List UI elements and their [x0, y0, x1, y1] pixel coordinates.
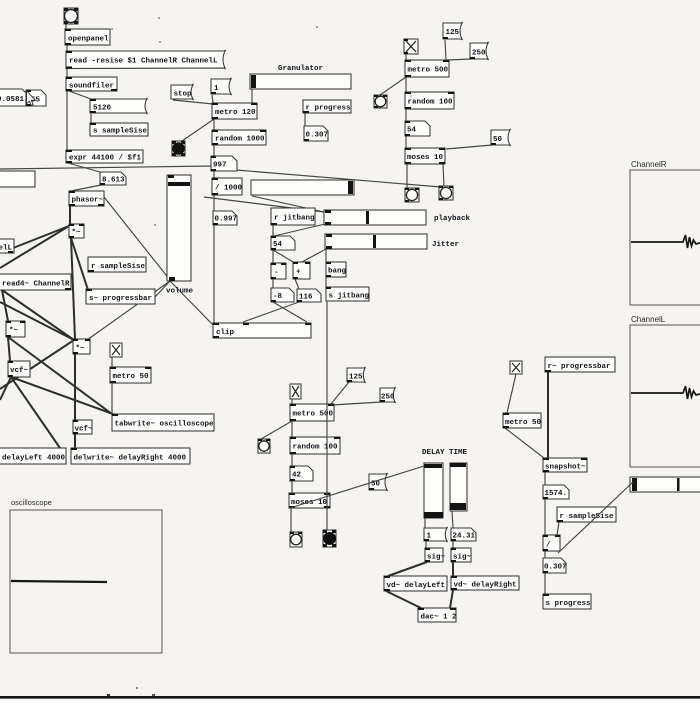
svg-text:s sampleSise: s sampleSise — [93, 128, 148, 136]
object s jitbang — [326, 287, 370, 301]
svg-text:-8: -8 — [273, 293, 283, 301]
wire — [273, 250, 295, 263]
object delwrite~ delayRight 4000 — [71, 448, 190, 464]
wire — [69, 206, 71, 224]
object soundfiler — [66, 77, 117, 91]
wire — [331, 382, 349, 404]
wire — [332, 402, 381, 405]
wire — [452, 511, 453, 528]
message read -resize $1 ChannelR ChannelL — [66, 50, 226, 69]
svg-text:moses 10: moses 10 — [407, 154, 444, 162]
wire — [236, 170, 441, 187]
wire — [8, 337, 112, 414]
wire — [291, 421, 293, 437]
wire — [2, 290, 8, 321]
wire — [11, 377, 113, 414]
svg-text:oscilloscope: oscilloscope — [11, 498, 52, 507]
object random 1000 — [212, 130, 266, 145]
wire — [87, 281, 170, 340]
svg-text:s jitbang: s jitbang — [329, 293, 370, 301]
object / 1000 — [212, 178, 243, 195]
wire — [388, 562, 427, 576]
wire — [291, 399, 293, 404]
svg-text:-: - — [274, 269, 279, 277]
svg-text:snapshot~: snapshot~ — [545, 464, 586, 472]
vslider volume — [167, 175, 191, 281]
wire — [11, 377, 60, 448]
svg-text:openpanel: openpanel — [68, 36, 109, 44]
svg-text:read4~ ChannelR: read4~ ChannelR — [2, 281, 70, 289]
wire — [261, 421, 292, 439]
wire — [155, 281, 170, 297]
svg-text:s~ progressbar: s~ progressbar — [89, 295, 152, 303]
wire — [452, 562, 454, 576]
object + — [293, 262, 310, 279]
svg-text:*~: *~ — [76, 345, 86, 353]
object snapshot~ — [543, 458, 587, 472]
object *~ B — [6, 321, 25, 337]
number 0.997 — [213, 211, 237, 225]
number 0.307 second — [543, 558, 567, 573]
object read4~ ChannelL (partial) — [0, 239, 14, 253]
svg-text:0.307: 0.307 — [544, 564, 567, 572]
wire — [272, 279, 274, 288]
wire — [405, 136, 407, 148]
number 1574. — [543, 485, 569, 499]
object moses 10 second — [289, 493, 330, 508]
wire — [71, 238, 75, 339]
wire — [557, 522, 559, 535]
message 125 second — [347, 367, 366, 383]
hslider grain 2 — [251, 180, 354, 195]
object metro 50 left — [110, 367, 151, 383]
svg-text:Jitter: Jitter — [432, 241, 459, 249]
wire — [505, 428, 544, 458]
bang B2 filled — [172, 141, 185, 156]
object random 100 second — [290, 437, 340, 454]
svg-text:0.0581: 0.0581 — [0, 96, 25, 104]
toggle T2 — [290, 384, 301, 399]
wire — [66, 69, 68, 77]
wire — [405, 109, 407, 121]
number 116 — [297, 289, 321, 302]
object - — [271, 263, 286, 279]
message 250 second — [380, 387, 396, 403]
svg-text:vd~ delayRight: vd~ delayRight — [454, 582, 517, 590]
wire — [204, 197, 324, 212]
wire — [405, 54, 407, 60]
wire — [213, 195, 215, 211]
object random 100 — [405, 92, 454, 109]
svg-text:delayLeft 4000: delayLeft 4000 — [2, 455, 66, 463]
svg-text:stop: stop — [174, 91, 193, 99]
object openpanel — [65, 29, 110, 45]
wire — [295, 279, 299, 289]
wire bang column long — [326, 301, 328, 530]
object r~ progressbar — [545, 357, 615, 372]
wire — [213, 171, 215, 178]
svg-text:vd~ delayLeft: vd~ delayLeft — [387, 582, 446, 590]
wire — [448, 59, 471, 60]
object r sampleSise — [88, 257, 146, 272]
wire — [0, 166, 212, 169]
svg-text:250: 250 — [472, 50, 486, 58]
toggle T4 — [110, 343, 122, 357]
svg-text:54: 54 — [273, 241, 283, 249]
bang B1 — [64, 8, 78, 24]
wire — [0, 226, 69, 268]
wire — [443, 164, 444, 186]
message 1 delay — [424, 527, 448, 542]
wire — [274, 224, 325, 236]
hslider playback — [324, 210, 426, 225]
wire — [302, 249, 326, 262]
wire — [445, 40, 446, 60]
svg-text:*~: *~ — [9, 327, 19, 335]
wire — [0, 377, 11, 400]
svg-text:r progress: r progress — [306, 105, 352, 113]
svg-text:tabwrite~ oscilloscope: tabwrite~ oscilloscope — [115, 421, 215, 429]
object sig~ 1 — [425, 548, 446, 562]
number 42 — [290, 466, 313, 481]
tick — [107, 694, 110, 696]
svg-text:*~: *~ — [72, 229, 82, 237]
wire — [111, 383, 113, 414]
toggle T3 — [510, 361, 522, 374]
wire — [380, 77, 406, 95]
object r progress — [303, 100, 351, 113]
svg-text:random 1000: random 1000 — [215, 136, 265, 144]
svg-text:+: + — [296, 269, 301, 277]
object metro 500 — [405, 60, 449, 77]
svg-text:r jitbang: r jitbang — [274, 215, 315, 223]
number 24.31 — [451, 528, 476, 541]
object metro 120 — [212, 103, 257, 119]
object vcf~ 2 — [73, 420, 93, 434]
svg-text:metro 50: metro 50 — [113, 373, 150, 381]
svg-text:997: 997 — [213, 162, 227, 170]
wire — [272, 225, 274, 236]
bang B6 — [258, 439, 270, 453]
wire — [8, 337, 10, 361]
svg-text:DELAY TIME: DELAY TIME — [422, 449, 468, 457]
wire — [90, 114, 92, 123]
wire — [68, 163, 100, 172]
wire — [304, 113, 306, 126]
number 0.307 — [304, 126, 328, 141]
wire — [425, 541, 427, 548]
svg-text:soundfiler: soundfiler — [69, 83, 114, 91]
svg-text:42: 42 — [292, 472, 302, 480]
number 997 — [211, 156, 237, 171]
wire — [213, 225, 215, 323]
wire — [325, 249, 327, 262]
message stop — [171, 84, 194, 100]
graph oscilloscope — [10, 510, 162, 653]
message 125 — [443, 22, 463, 40]
array ChannelR — [630, 170, 700, 305]
wire — [406, 164, 408, 188]
wire — [212, 95, 213, 103]
wire — [2, 290, 74, 340]
svg-text:/ 1000: / 1000 — [215, 185, 243, 193]
wire — [3, 226, 69, 252]
object clip — [213, 323, 311, 338]
wire — [544, 499, 546, 535]
object vcf~ 1 — [8, 361, 30, 377]
wire divide to bottom slider — [558, 482, 633, 553]
svg-text:delwrite~ delayRight 4000: delwrite~ delayRight 4000 — [74, 455, 187, 463]
object / — [543, 535, 560, 551]
wire — [544, 551, 546, 558]
bang B8 filled — [323, 530, 336, 547]
svg-text:8.613: 8.613 — [102, 177, 125, 185]
svg-text:bang: bang — [328, 268, 347, 276]
svg-text:/: / — [546, 542, 551, 550]
wire — [405, 77, 407, 92]
svg-text:vcf~: vcf~ — [10, 367, 29, 375]
dust dots — [111, 17, 412, 689]
bang B5 — [439, 186, 453, 200]
object dac~ 1 2 — [418, 608, 457, 622]
wire — [0, 340, 74, 389]
wire — [213, 119, 215, 130]
object r sampleSise second — [557, 507, 616, 522]
object bang — [326, 262, 347, 277]
svg-text:0.307: 0.307 — [306, 132, 329, 140]
wire — [71, 238, 88, 290]
hslider partial top-left — [0, 171, 35, 187]
svg-text:r sampleSise: r sampleSise — [91, 263, 146, 271]
wire — [111, 357, 113, 367]
svg-text:s progress: s progress — [546, 600, 592, 608]
wire — [251, 89, 253, 103]
svg-text:54: 54 — [407, 127, 417, 135]
message 250 — [470, 42, 489, 60]
object expr 44100 / $f1 — [66, 150, 143, 163]
mouse cursor — [27, 91, 36, 106]
object *~ A — [69, 224, 84, 238]
number -8 — [271, 288, 294, 302]
object s~ progressbar — [86, 289, 155, 304]
object s sampleSise — [90, 123, 148, 136]
wire — [173, 100, 213, 104]
wire — [65, 22, 67, 29]
number 0.0581 — [0, 89, 27, 106]
message 1 — [211, 78, 232, 95]
object sig~ 2 — [451, 548, 472, 562]
object s progress — [543, 594, 591, 609]
svg-text:clip: clip — [216, 329, 235, 337]
wire — [182, 119, 214, 141]
array ChannelL — [630, 325, 700, 467]
svg-text:metro 500: metro 500 — [408, 67, 449, 75]
object vd~ delayRight — [451, 576, 519, 590]
object vd~ delayLeft — [384, 576, 447, 591]
svg-text:1: 1 — [214, 85, 219, 93]
vslider delay 2 — [450, 463, 467, 511]
wire — [424, 518, 426, 528]
svg-text:metro 120: metro 120 — [215, 109, 256, 117]
hslider bottom right — [630, 477, 700, 492]
wire — [252, 196, 324, 212]
toggle T1 — [404, 39, 418, 54]
wire — [69, 91, 91, 99]
wire — [291, 481, 293, 493]
wire — [74, 434, 76, 448]
message 50 second — [369, 473, 388, 491]
wire — [273, 302, 307, 322]
object metro 500 second — [290, 404, 334, 421]
message 50 — [491, 129, 511, 146]
wire — [450, 590, 453, 608]
message 5120 — [90, 98, 148, 114]
wire — [213, 145, 215, 156]
object phasor~ — [69, 191, 104, 206]
svg-text:random 100: random 100 — [293, 444, 339, 452]
svg-text:0.997: 0.997 — [215, 216, 238, 224]
svg-text:r sampleSise: r sampleSise — [560, 513, 615, 521]
object r jitbang — [271, 208, 315, 225]
wire — [386, 591, 421, 608]
number 55 — [26, 90, 46, 106]
number 8.613 — [100, 172, 126, 185]
svg-text:read -resise $1 ChannelR Chann: read -resise $1 ChannelR ChannelL — [69, 58, 218, 66]
wire — [547, 372, 549, 458]
svg-text:ChannelR: ChannelR — [631, 160, 667, 169]
bang B7 — [290, 532, 302, 547]
svg-text:volume: volume — [166, 288, 194, 296]
tick — [152, 694, 155, 696]
object *~ C — [73, 339, 90, 354]
wire — [104, 197, 170, 280]
svg-text:dac~ 1 2: dac~ 1 2 — [421, 614, 458, 622]
svg-text:ChannelL: ChannelL — [631, 315, 666, 324]
wire — [272, 250, 274, 263]
wire — [74, 354, 76, 420]
bottom border line — [0, 696, 700, 699]
wire — [66, 91, 68, 150]
bang B4 — [405, 188, 419, 202]
svg-text:125: 125 — [446, 29, 460, 37]
object delwrite~ delayLeft 4000 (partial) — [0, 448, 66, 464]
number 54 right — [405, 121, 430, 136]
wire — [544, 472, 546, 485]
svg-text:50: 50 — [493, 136, 503, 144]
wire — [243, 302, 299, 322]
object tabwrite~ oscilloscope — [112, 414, 214, 431]
wire — [71, 185, 101, 191]
svg-text:random 100: random 100 — [408, 99, 454, 107]
wire — [0, 302, 74, 340]
bang B3 — [374, 95, 387, 108]
svg-text:playback: playback — [434, 215, 471, 223]
wire — [325, 277, 327, 287]
number 54 — [271, 236, 295, 250]
svg-text:1574.: 1574. — [545, 490, 568, 498]
wire — [170, 281, 213, 325]
object tabread4~ ChannelR (partial) — [0, 274, 71, 290]
svg-text:Granulator: Granulator — [278, 65, 323, 73]
wire — [507, 374, 516, 413]
wire — [66, 45, 68, 51]
wire — [291, 454, 293, 466]
svg-text:metro 50: metro 50 — [505, 419, 542, 427]
svg-text:r~ progressbar: r~ progressbar — [548, 363, 611, 371]
hslider Jitter — [325, 234, 427, 249]
svg-text:phasor~: phasor~ — [72, 197, 104, 205]
wire — [446, 145, 492, 149]
vslider delay 1 — [424, 463, 443, 518]
hslider grain top — [250, 74, 351, 89]
object metro 50 right — [503, 413, 542, 428]
wire — [452, 541, 454, 548]
wire — [290, 508, 292, 532]
wire moses to delay slider — [290, 466, 424, 508]
wire — [544, 573, 546, 594]
object moses 10 — [405, 148, 445, 164]
svg-text:expr 44100 / $f1: expr 44100 / $f1 — [69, 155, 142, 163]
